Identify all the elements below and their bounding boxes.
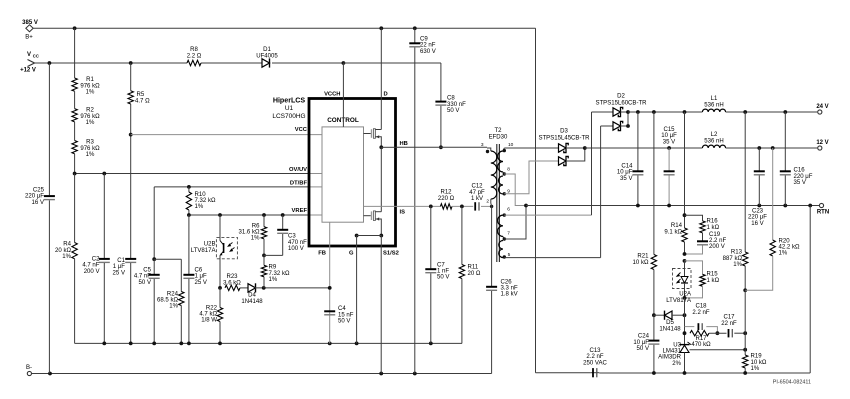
wire pin 5 to D2 lower anode [504, 257, 600, 259]
svg-text:R21: R21 [637, 254, 649, 260]
svg-text:1.8 kV: 1.8 kV [501, 292, 518, 298]
svg-text:R20: R20 [779, 239, 791, 245]
shunt regulator U3 LM431 [680, 344, 690, 346]
svg-text:C16: C16 [794, 168, 806, 174]
resistor R10 [188, 187, 190, 192]
wire B+ rail [33, 27, 535, 29]
svg-text:1 kΩ: 1 kΩ [707, 225, 720, 231]
svg-text:G: G [349, 251, 354, 257]
wire FB to feedback node [329, 246, 331, 343]
svg-text:200 V: 200 V [84, 269, 100, 275]
capacitor C6 [188, 215, 190, 274]
diode D4 [248, 284, 256, 292]
svg-text:3: 3 [481, 142, 484, 148]
capacitor C5 [153, 259, 155, 274]
resistor R9 [263, 255, 265, 265]
resistor R21 [653, 112, 655, 255]
svg-text:R1: R1 [86, 77, 94, 83]
svg-text:536 nH: 536 nH [704, 103, 724, 109]
svg-text:10: 10 [508, 142, 514, 148]
svg-text:24 V: 24 V [816, 104, 828, 110]
svg-text:R16: R16 [707, 219, 719, 225]
svg-text:L1: L1 [711, 96, 718, 102]
svg-text:B-: B- [26, 365, 32, 371]
svg-text:FB: FB [318, 251, 326, 257]
svg-text:D4: D4 [248, 293, 256, 299]
svg-text:C4: C4 [338, 306, 346, 312]
wire signal ground rail [75, 342, 462, 344]
svg-text:C26: C26 [501, 280, 513, 286]
svg-text:4.7 Ω: 4.7 Ω [135, 99, 150, 105]
wire 24V output [726, 111, 818, 113]
wire VREF line [189, 214, 309, 216]
svg-text:AIM3DR: AIM3DR [658, 355, 681, 361]
svg-text:31.6 kΩ: 31.6 kΩ [239, 230, 260, 236]
resistor R13 [744, 112, 746, 252]
svg-text:R14: R14 [671, 223, 683, 229]
wire pin 6 to D2 upper anode [504, 214, 591, 216]
svg-text:U1: U1 [285, 105, 294, 112]
svg-text:R15: R15 [707, 272, 719, 278]
svg-text:1%: 1% [779, 251, 788, 257]
wire 12V output [726, 147, 818, 149]
svg-text:1 kV: 1 kV [471, 196, 483, 202]
svg-text:D5: D5 [666, 320, 674, 326]
svg-text:1N4148: 1N4148 [659, 326, 681, 332]
svg-text:VREF: VREF [292, 208, 308, 214]
svg-text:R9: R9 [269, 265, 277, 271]
svg-text:VCCH: VCCH [324, 92, 340, 98]
svg-text:D: D [384, 92, 388, 98]
resistor R8 [187, 60, 201, 65]
resistor R3 [72, 141, 77, 154]
svg-text:220 μF: 220 μF [748, 215, 767, 221]
resistor R12 [440, 204, 452, 209]
svg-text:OV/UV: OV/UV [289, 167, 307, 173]
capacitor C19 [702, 233, 704, 241]
node 12 V terminal [818, 146, 822, 150]
svg-text:2.2 nF: 2.2 nF [709, 238, 726, 244]
svg-text:976 kΩ: 976 kΩ [80, 83, 100, 89]
resistor R5 [130, 63, 132, 91]
svg-text:22 nF: 22 nF [420, 43, 436, 49]
svg-text:V: V [27, 52, 31, 58]
svg-text:R11: R11 [468, 265, 479, 271]
svg-text:C15: C15 [663, 127, 675, 133]
svg-text:VCC: VCC [295, 127, 308, 133]
transformer secondary winding pins 6-7-5 [498, 215, 503, 236]
wire B+ to C13 (down right side of transformer) [535, 28, 537, 372]
svg-text:B+: B+ [25, 35, 33, 41]
svg-text:STPS15L45CB-TR: STPS15L45CB-TR [538, 135, 590, 141]
svg-text:10 kΩ: 10 kΩ [633, 260, 649, 266]
svg-text:1%: 1% [195, 204, 204, 210]
capacitor C18 (across R17) [685, 326, 695, 328]
IC U1 HiperLCS LCS700HG outline [309, 99, 396, 247]
svg-text:887 kΩ: 887 kΩ [723, 256, 743, 262]
resistor R24 [154, 258, 181, 260]
svg-text:16 V: 16 V [751, 221, 763, 227]
svg-text:200 V: 200 V [709, 244, 725, 250]
wire secondary ground rail [591, 372, 600, 374]
svg-text:7: 7 [507, 231, 510, 237]
svg-text:1 μF: 1 μF [113, 264, 126, 270]
wire HB line to transformer pin 3 [396, 146, 488, 148]
svg-text:CC: CC [33, 54, 39, 59]
wire IS line inside U1 [364, 205, 396, 207]
svg-text:1%: 1% [62, 254, 71, 260]
svg-text:35 V: 35 V [794, 180, 806, 186]
svg-text:R22: R22 [206, 306, 218, 312]
svg-text:R5: R5 [137, 92, 145, 98]
capacitor C3 [282, 215, 284, 229]
diode D5 [654, 314, 665, 316]
svg-text:50 V: 50 V [437, 275, 449, 281]
svg-text:C17: C17 [723, 315, 735, 321]
wire +12V rail [35, 62, 188, 64]
svg-text:47 pF: 47 pF [469, 190, 485, 196]
svg-text:1%: 1% [86, 152, 95, 158]
svg-text:630 V: 630 V [420, 49, 436, 55]
wire pin 8 to RTN jog [504, 174, 526, 206]
wire pin 7 to RTN jog [504, 206, 526, 240]
svg-text:1%: 1% [86, 90, 95, 96]
svg-text:R2: R2 [86, 108, 94, 114]
svg-text:UF4005: UF4005 [256, 54, 278, 60]
resistor R11 [461, 206, 463, 264]
svg-text:220 Ω: 220 Ω [438, 196, 455, 202]
resistor R2 [72, 109, 77, 122]
svg-text:1%: 1% [86, 120, 95, 126]
svg-text:R10: R10 [195, 192, 207, 198]
svg-text:10 μF: 10 μF [633, 340, 649, 346]
node 24 V terminal [818, 110, 822, 114]
capacitor C13 (Y-capacitor) [592, 368, 594, 377]
svg-text:C6: C6 [195, 268, 203, 274]
svg-text:10 μF: 10 μF [617, 170, 633, 176]
wire G to signal ground [356, 246, 358, 343]
svg-text:50 V: 50 V [338, 319, 350, 325]
svg-text:STPS15L60CB-TR: STPS15L60CB-TR [595, 100, 647, 106]
resistor R22 [219, 288, 221, 308]
svg-text:976 kΩ: 976 kΩ [80, 114, 100, 120]
wire 12V rail (pre-inductor) [585, 147, 703, 149]
wire IS line [396, 205, 441, 207]
svg-text:25 V: 25 V [195, 280, 207, 286]
svg-text:R19: R19 [751, 354, 763, 360]
resistor R15 [683, 259, 687, 263]
capacitor C4 [324, 310, 335, 312]
node RTN terminal [819, 203, 823, 207]
svg-text:15 nF: 15 nF [338, 312, 354, 318]
svg-text:R13: R13 [731, 250, 743, 256]
svg-text:C7: C7 [437, 263, 445, 269]
optocoupler U2A LTV817A (LED) [673, 269, 692, 289]
resistor R6 [263, 215, 265, 227]
svg-text:2%: 2% [672, 361, 681, 367]
svg-text:1%: 1% [169, 304, 178, 310]
inductor L1 [702, 109, 725, 112]
svg-text:3.3 nF: 3.3 nF [501, 286, 518, 292]
svg-text:C3: C3 [288, 234, 296, 240]
svg-text:C13: C13 [589, 348, 601, 354]
svg-text:LCS700HG: LCS700HG [272, 113, 305, 120]
svg-text:330 nF: 330 nF [447, 102, 466, 108]
wire FB line inside U1 [329, 222, 331, 246]
svg-text:4.7 nF: 4.7 nF [134, 274, 151, 280]
svg-text:250 VAC: 250 VAC [583, 360, 607, 366]
wire 24V rail (pre-inductor) [628, 111, 702, 113]
svg-text:C18: C18 [695, 304, 707, 310]
svg-text:1 nF: 1 nF [437, 269, 449, 275]
resistor R1 [74, 28, 76, 78]
svg-text:R23: R23 [226, 274, 238, 280]
svg-text:C5: C5 [143, 268, 151, 274]
svg-text:68.5 kΩ: 68.5 kΩ [157, 298, 178, 304]
svg-text:10 μF: 10 μF [661, 133, 677, 139]
svg-text:220 μF: 220 μF [794, 174, 813, 180]
svg-text:C14: C14 [621, 164, 633, 170]
transformer secondary winding pins 10-8-9 [498, 151, 503, 172]
svg-text:12 V: 12 V [816, 140, 828, 146]
svg-text:C9: C9 [420, 37, 428, 43]
capacitor C15 [668, 148, 670, 171]
resistor R14 [684, 112, 686, 228]
svg-text:470 kΩ: 470 kΩ [691, 342, 711, 348]
capacitor C12 [474, 202, 476, 210]
svg-text:HB: HB [400, 141, 408, 147]
wire HB node [379, 145, 383, 149]
svg-text:R6: R6 [252, 224, 260, 230]
svg-text:T2: T2 [494, 128, 502, 134]
svg-text:D1: D1 [263, 47, 271, 53]
svg-text:RTN: RTN [817, 210, 829, 216]
svg-text:L2: L2 [711, 132, 718, 138]
svg-text:470 nF: 470 nF [288, 240, 307, 246]
wire RTN rail [526, 205, 819, 207]
capacitor C14 [637, 112, 639, 171]
resistor R16 [685, 215, 703, 221]
svg-text:1%: 1% [251, 236, 260, 242]
svg-text:PI-6504-082411: PI-6504-082411 [773, 380, 811, 386]
capacitor C7 [430, 206, 432, 268]
svg-text:1N4148: 1N4148 [241, 299, 263, 305]
svg-text:C19: C19 [709, 232, 721, 238]
capacitor C26 [491, 206, 493, 286]
svg-text:C25: C25 [33, 188, 45, 194]
svg-text:50 V: 50 V [637, 346, 649, 352]
capacitor C16 [784, 112, 786, 171]
svg-text:LTV817A: LTV817A [191, 248, 217, 254]
wire U3 cathode node [684, 315, 686, 344]
svg-text:R8: R8 [190, 47, 198, 53]
capacitor C2 [103, 174, 105, 259]
svg-text:1 μF: 1 μF [195, 274, 208, 280]
inductor L2 [702, 145, 725, 148]
capacitor C24 [652, 313, 656, 317]
resistor R23 [225, 285, 240, 290]
svg-text:R24: R24 [167, 292, 179, 298]
svg-text:C24: C24 [638, 334, 650, 340]
optocoupler U2B LTV817A (photo-transistor) [216, 237, 237, 258]
svg-text:1/8 W: 1/8 W [201, 318, 217, 324]
wire G to S tie inside U1 [379, 234, 383, 238]
svg-text:C2: C2 [92, 257, 100, 263]
svg-text:1%: 1% [733, 262, 742, 268]
svg-text:536 nH: 536 nH [704, 139, 724, 145]
svg-text:HiperLCS: HiperLCS [273, 97, 306, 105]
resistor R20 [772, 148, 774, 240]
svg-text:LTV817A: LTV817A [666, 298, 692, 304]
capacitor C25 [48, 63, 50, 195]
wire VCC line to U1 [131, 134, 322, 136]
control block inside U1 [322, 127, 364, 222]
svg-text:42.2 kΩ: 42.2 kΩ [779, 245, 800, 251]
svg-text:16 V: 16 V [32, 200, 44, 206]
svg-text:35 V: 35 V [663, 139, 675, 145]
svg-text:D3: D3 [560, 129, 568, 135]
wire OV/UV line [75, 173, 309, 175]
svg-text:2.2 Ω: 2.2 Ω [187, 54, 202, 60]
svg-text:R4: R4 [63, 242, 71, 248]
svg-text:20 Ω: 20 Ω [468, 271, 481, 277]
svg-text:50 V: 50 V [139, 280, 151, 286]
svg-text:EFD30: EFD30 [489, 135, 508, 141]
svg-text:976 kΩ: 976 kΩ [80, 146, 100, 152]
wire pin 10 to D3 [504, 147, 558, 149]
svg-text:R12: R12 [440, 190, 452, 196]
wire pin 9 to D3 lower anode [504, 161, 558, 194]
svg-text:6: 6 [507, 207, 510, 213]
svg-text:LM431: LM431 [663, 349, 682, 355]
svg-text:100 V: 100 V [288, 246, 304, 252]
wire RTN down-link [809, 206, 811, 374]
svg-text:IS: IS [400, 210, 406, 216]
svg-text:C23: C23 [752, 209, 764, 215]
svg-text:2.2 nF: 2.2 nF [692, 310, 709, 316]
capacitor C9 [414, 28, 416, 42]
svg-text:10 kΩ: 10 kΩ [751, 360, 767, 366]
capacitor C8 (bootstrap) [343, 62, 441, 64]
svg-text:9.1 kΩ: 9.1 kΩ [664, 229, 682, 235]
wire S1/S2 to B- [380, 246, 382, 374]
svg-text:U2B: U2B [204, 242, 216, 248]
svg-text:22 nF: 22 nF [721, 321, 737, 327]
svg-text:4.7 nF: 4.7 nF [82, 263, 99, 269]
high-side MOSFET inside U1 [364, 133, 371, 135]
svg-text:C8: C8 [447, 96, 455, 102]
svg-text:7.32 kΩ: 7.32 kΩ [195, 198, 216, 204]
svg-text:C1: C1 [117, 258, 125, 264]
svg-text:DT/BF: DT/BF [290, 180, 308, 186]
svg-text:25 V: 25 V [113, 270, 125, 276]
resistor R4 [74, 174, 76, 243]
resistor R17 [690, 331, 709, 336]
svg-text:2.2 nF: 2.2 nF [586, 354, 603, 360]
svg-text:50 V: 50 V [447, 108, 459, 114]
wire B- rail [32, 373, 492, 375]
svg-text:C12: C12 [471, 184, 483, 190]
svg-text:35 V: 35 V [620, 176, 632, 182]
low-side MOSFET inside U1 [364, 215, 371, 217]
svg-text:U3: U3 [673, 343, 681, 349]
svg-text:D2: D2 [617, 94, 625, 100]
wire DT/BF line [154, 186, 309, 188]
svg-text:S1/S2: S1/S2 [383, 251, 399, 257]
svg-text:20 kΩ: 20 kΩ [55, 248, 71, 254]
svg-text:+12 V: +12 V [20, 68, 36, 74]
svg-text:8: 8 [507, 167, 510, 173]
svg-text:220 μF: 220 μF [25, 194, 44, 200]
svg-text:1%: 1% [751, 366, 760, 372]
wire U3 ref line [690, 349, 746, 351]
svg-text:1%: 1% [269, 277, 278, 283]
svg-text:3.6 kΩ: 3.6 kΩ [223, 280, 241, 286]
capacitor C17 [728, 329, 730, 337]
capacitor C1 [130, 135, 132, 259]
diode D1 [262, 59, 270, 67]
svg-text:2: 2 [486, 199, 489, 205]
capacitor C23 [758, 148, 760, 171]
resistor R19 [744, 290, 746, 355]
svg-text:R3: R3 [86, 140, 94, 146]
svg-text:7.32 kΩ: 7.32 kΩ [269, 271, 290, 277]
svg-text:4.7 kΩ: 4.7 kΩ [199, 312, 217, 318]
svg-text:1 kΩ: 1 kΩ [707, 278, 720, 284]
